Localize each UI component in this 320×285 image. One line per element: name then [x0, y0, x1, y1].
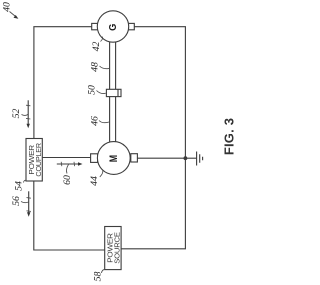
svg-text:G: G — [108, 23, 120, 30]
svg-text:46: 46 — [90, 116, 101, 126]
svg-text:56: 56 — [11, 196, 22, 206]
svg-text:40: 40 — [2, 2, 13, 12]
svg-text:42: 42 — [91, 42, 102, 52]
svg-text:48: 48 — [90, 62, 101, 72]
svg-text:60: 60 — [62, 175, 73, 185]
svg-text:M: M — [108, 155, 120, 162]
svg-text:SOURCE: SOURCE — [114, 232, 122, 264]
svg-text:FIG. 3: FIG. 3 — [222, 118, 237, 155]
svg-text:44: 44 — [89, 176, 100, 186]
svg-text:54: 54 — [14, 181, 25, 191]
svg-text:COUPLER: COUPLER — [35, 143, 43, 177]
svg-text:50: 50 — [87, 85, 98, 95]
svg-text:52: 52 — [11, 109, 22, 119]
